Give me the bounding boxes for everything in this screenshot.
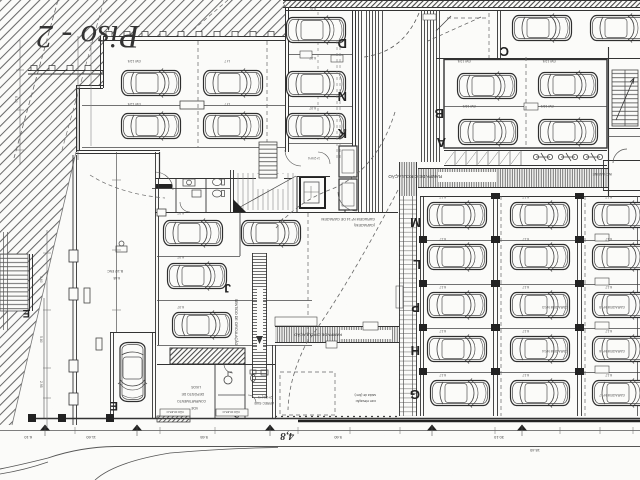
locker band [444, 151, 607, 166]
mid rows dashed east [307, 213, 309, 345]
left stair block [0, 254, 33, 311]
side street corner arcs [95, 448, 278, 480]
elevator shaft 1 [300, 177, 325, 208]
car col2 row1 [511, 201, 570, 230]
car col3 row4 [593, 335, 640, 364]
hatched box lower [170, 348, 245, 364]
mid row divider 3 [157, 345, 312, 347]
car row1 a [513, 14, 572, 43]
ramp label box [423, 14, 436, 20]
garage dim line x=91 [90, 42, 92, 146]
stall dashed divider x=267 [266, 41, 268, 147]
mid rows west wall [156, 152, 159, 345]
grid column dashed 2 [584, 196, 586, 416]
lobby door arc right [338, 192, 357, 211]
door arcs [180, 152, 330, 403]
west wall x=76 [77, 86, 80, 152]
column box on stall line [180, 101, 204, 109]
wall x=345 lobby [344, 210, 346, 213]
left dimension line [14, 40, 51, 428]
property dashed diagonal in hatch [14, 0, 58, 158]
mid row divider 1 [157, 256, 240, 258]
car col2 row4 [511, 335, 570, 364]
lobby walls [297, 176, 330, 212]
west facade dashed line [69, 155, 78, 425]
storage rooms bottom center [157, 345, 276, 418]
car col3 row3 [593, 291, 640, 320]
mid row divider 2 [157, 300, 312, 302]
drain circle on wall [436, 16, 451, 31]
wc fixtures [250, 370, 268, 382]
car A2 [539, 118, 598, 147]
room divider x=117 [116, 152, 118, 332]
ramp dashed diagonal [428, 17, 481, 41]
right door arc 2 [608, 136, 640, 138]
car E vertical [118, 343, 147, 402]
motorcycles [533, 153, 602, 161]
dimension line bottom [0, 425, 640, 437]
D column right wall [353, 10, 356, 165]
stall line y=105 left garage [82, 105, 285, 107]
grid left wall [421, 196, 424, 416]
car col3 row2 [593, 243, 640, 272]
door arc left [155, 172, 173, 190]
bottom building wall [28, 414, 640, 422]
wall poche black [156, 184, 172, 189]
toilet 2 [213, 190, 225, 197]
garagem 14 text mid [321, 217, 375, 227]
west retaining wall upper [28, 66, 103, 75]
car 3 left garage [122, 112, 181, 141]
car col2 row3 [511, 291, 570, 320]
divider label boxes col3 [595, 234, 609, 373]
ramp dashed curve [364, 13, 419, 57]
car stall D [287, 16, 346, 45]
tiny dim numbers bottom [23, 435, 540, 453]
hatch boundary diagonal line [12, 152, 76, 425]
car stall H col1 [428, 335, 487, 364]
grid row dividers [424, 241, 640, 373]
sink 1 [183, 179, 201, 197]
right rooms walls [603, 47, 640, 196]
small columns mid-left [84, 209, 166, 350]
car stall P col1 [428, 291, 487, 320]
ladder ramp strip left [234, 253, 267, 398]
row1 dashed empty stall [447, 13, 489, 58]
stall line y=147 [82, 147, 285, 149]
car A1 [459, 118, 518, 147]
sidewalk dashes [275, 416, 400, 418]
garage box B/A [444, 60, 607, 149]
step wall y=86 [76, 86, 103, 89]
grid right edge line [637, 196, 639, 416]
car stall M col1 [428, 201, 487, 230]
stair flight upper [259, 142, 277, 178]
vao duplo strips [160, 409, 248, 416]
ramp east wall bundle [422, 10, 440, 162]
car row1 b [591, 14, 640, 43]
bathroom walls [176, 170, 234, 212]
car stall K [287, 112, 346, 141]
main wall x=285 [286, 8, 289, 152]
compartimento text [107, 269, 376, 410]
dashed drive arc lower [288, 190, 398, 410]
north wall hatched strip [283, 1, 640, 8]
car 1 left garage [122, 69, 181, 98]
north wall inner line [285, 10, 640, 12]
grid column wall 1 [494, 196, 498, 416]
car stall L col1 [428, 243, 487, 272]
car 2 left garage [204, 69, 263, 98]
car col3 row1 [593, 201, 640, 230]
wall x=160 step down [159, 152, 161, 178]
circulation corridor hatch band [388, 168, 608, 188]
stairs upper middle [233, 173, 296, 212]
grid column wall 2 [578, 196, 582, 416]
mid rows top line [155, 212, 398, 214]
left double border [4, 232, 8, 330]
sink fixture in room [116, 241, 127, 252]
grid wall stubs [419, 193, 584, 375]
right door arc [613, 149, 627, 163]
dashed drive arc upper [276, 112, 395, 228]
car B2 [539, 71, 598, 100]
car mid r3 [173, 311, 232, 340]
lower-right grid top wall [420, 196, 640, 198]
grid column dashed 1 [500, 196, 502, 416]
car 4 left garage [204, 112, 263, 141]
dashed aisle divider x=338 [337, 41, 340, 160]
upper dim line x=78 [77, 36, 79, 160]
top wall of left garage [103, 32, 285, 41]
stall dashed divider x=198 [197, 41, 199, 147]
car mid r2 [168, 262, 227, 291]
row1 bottom wall y=47 [436, 58, 640, 60]
wall stub x=240 [239, 213, 241, 256]
toilet 1 [213, 179, 225, 186]
dashed aisle arc left [90, 175, 165, 198]
ramp west wall bundle [359, 10, 383, 213]
elevator shaft 2 [339, 146, 357, 177]
car col2 row2 [511, 243, 570, 272]
lobby door arc top [285, 150, 301, 166]
circulation band horizontal [275, 317, 399, 348]
D column stall lines [289, 55, 352, 144]
car stall N [287, 70, 346, 99]
wall y=152 [76, 151, 160, 154]
stall micro labels [128, 7, 625, 397]
ladder ramp strip vertical [396, 162, 417, 416]
car col3 row5 [593, 379, 640, 408]
west wall x=103 [101, 36, 104, 88]
property dashed diagonal 2 [186, 0, 228, 36]
bathroom block top wall [155, 178, 292, 180]
elevator shaft 3 [339, 179, 357, 210]
car B1 [458, 72, 517, 101]
box dashed divider x=526 [525, 57, 527, 148]
dashed patio rect [280, 372, 335, 415]
stair wall line to street [43, 298, 45, 418]
car col2 row5 [511, 379, 570, 408]
hatched embankment wedge top-left [0, 0, 285, 425]
right stair block [612, 70, 638, 126]
box divider y=103 [444, 106, 607, 108]
car stall G col1 [431, 379, 490, 408]
car mid r1b [242, 219, 301, 248]
car mid r1a [164, 219, 223, 248]
stall E walls [110, 332, 156, 418]
wheelchair symbol [224, 372, 232, 384]
street curb line [0, 447, 640, 470]
